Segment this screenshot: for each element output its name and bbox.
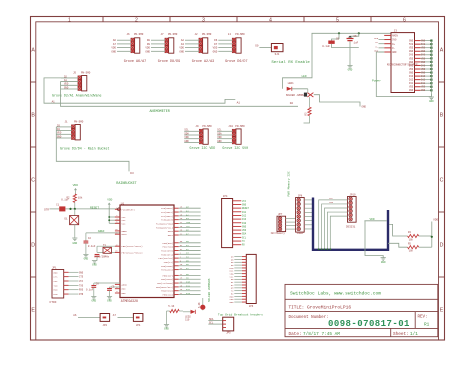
- svg-text:SCL: SCL: [186, 225, 191, 228]
- svg-text:GND: GND: [421, 61, 426, 64]
- svg-text:RXD: RXD: [79, 289, 84, 292]
- svg-text:SCL: SCL: [217, 129, 222, 132]
- svg-text:Grove I2C VDD: Grove I2C VDD: [190, 146, 216, 150]
- svg-text:5V0: 5V0: [421, 54, 426, 57]
- svg-text:PN-SMD: PN-SMD: [202, 125, 212, 128]
- op-amp U1 ATMEGA328: [115, 202, 201, 303]
- junction reset/R2: [74, 208, 76, 210]
- svg-text:PB7(XTAL2/TOSC2): PB7(XTAL2/TOSC2): [122, 251, 143, 254]
- connector J4 Grove D6/D7: [213, 33, 248, 64]
- svg-text:D: D: [31, 243, 35, 249]
- svg-text:5V0: 5V0: [374, 37, 379, 40]
- svg-text:RXD: RXD: [54, 289, 59, 292]
- svg-text:VDD: VDD: [409, 57, 414, 60]
- svg-text:VDD: VDD: [64, 83, 69, 86]
- svg-text:TXD: TXD: [54, 284, 59, 287]
- svg-text:PD3(INT1): PD3(INT1): [161, 253, 173, 256]
- svg-text:C10: C10: [185, 319, 190, 322]
- capacitor C8: [86, 283, 120, 303]
- svg-text:SJ1: SJ1: [275, 53, 280, 56]
- svg-text:6: 6: [403, 17, 406, 23]
- svg-text:SDA: SDA: [184, 132, 189, 135]
- wire LED net vertical: [283, 33, 313, 88]
- svg-text:JP1: JP1: [52, 266, 57, 269]
- svg-text:C1: C1: [56, 203, 60, 206]
- connector J2 Grove A2/A3: [179, 33, 214, 64]
- svg-text:VDD: VDD: [421, 68, 426, 71]
- svg-text:DTR: DTR: [79, 293, 84, 296]
- svg-text:A1: A1: [237, 102, 241, 105]
- svg-text:A3: A3: [181, 43, 185, 46]
- svg-text:PD6(AIN0): PD6(AIN0): [161, 265, 173, 268]
- svg-text:PN-SMD: PN-SMD: [168, 33, 178, 36]
- svg-text:PC5(ADC5/SCL): PC5(ADC5/SCL): [156, 226, 173, 229]
- resistor R6 5.1K: [167, 305, 184, 325]
- wire R5 to VDD column: [419, 246, 432, 248]
- node VDD (R2): [73, 184, 79, 192]
- svg-text:A7: A7: [113, 314, 117, 317]
- svg-text:10k: 10k: [78, 197, 83, 200]
- svg-text:GND: GND: [429, 100, 434, 103]
- svg-text:Power: Power: [372, 80, 381, 83]
- svg-text:SOLDER JUMPERS: SOLDER JUMPERS: [208, 278, 211, 302]
- svg-text:D-: D-: [392, 47, 395, 50]
- svg-text:D13: D13: [409, 75, 414, 78]
- svg-text:MAIN: MAIN: [392, 35, 398, 38]
- svg-text:D11: D11: [186, 284, 191, 287]
- svg-text:A6: A6: [73, 314, 77, 317]
- svg-text:GND: GND: [409, 50, 414, 53]
- svg-text:PB2(SS/OC1B): PB2(SS/OC1B): [157, 282, 173, 285]
- svg-text:GND: GND: [381, 261, 386, 264]
- svg-text:0.1uF: 0.1uF: [61, 198, 69, 201]
- svg-text:5V0: 5V0: [409, 54, 414, 57]
- svg-text:SwitchDoc Labs, www.switchdoc.: SwitchDoc Labs, www.switchdoc.com: [290, 291, 381, 297]
- svg-text:B: B: [440, 113, 444, 119]
- connector J7 Grove D8/D9: [145, 33, 180, 64]
- junction on rail: [358, 32, 360, 34]
- svg-text:DS3231: DS3231: [346, 226, 356, 229]
- svg-text:A: A: [31, 48, 35, 54]
- svg-text:A7: A7: [113, 43, 117, 46]
- svg-text:GND: GND: [122, 288, 127, 291]
- svg-text:2: 2: [135, 17, 138, 23]
- svg-text:GND: GND: [72, 242, 77, 245]
- svg-text:0098-070817-01: 0098-070817-01: [328, 319, 410, 329]
- svg-text:PD4(XCK/T0): PD4(XCK/T0): [159, 257, 173, 260]
- wire D2 anemometer net: [61, 82, 299, 107]
- svg-text:REV:: REV:: [418, 316, 428, 320]
- svg-text:ADC6: ADC6: [168, 230, 174, 233]
- svg-text:J1: J1: [65, 121, 69, 124]
- svg-text:J10: J10: [228, 125, 233, 128]
- svg-text:JP5: JP5: [226, 332, 231, 335]
- svg-text:E: E: [440, 308, 444, 314]
- connector JP10 DS3231: [318, 193, 356, 250]
- LED D2 cluster: [183, 310, 195, 322]
- svg-text:1uF: 1uF: [354, 42, 359, 45]
- svg-text:PN-SMD: PN-SMD: [81, 72, 91, 75]
- svg-text:AREF: AREF: [98, 230, 105, 233]
- svg-text:PN-SMD: PN-SMD: [235, 33, 245, 36]
- svg-text:PWR Memory I2C: PWR Memory I2C: [287, 171, 290, 196]
- wire power gnd path: [376, 52, 431, 97]
- svg-text:Y1: Y1: [103, 244, 107, 247]
- svg-text:GND: GND: [217, 140, 222, 143]
- junction pullup: [431, 236, 433, 238]
- svg-text:Serial RX Enable: Serial RX Enable: [271, 60, 310, 65]
- svg-text:J6: J6: [127, 33, 131, 36]
- svg-text:D10: D10: [242, 222, 247, 225]
- svg-text:VDD: VDD: [409, 68, 414, 71]
- svg-text:PC4(ADC4/SDA): PC4(ADC4/SDA): [156, 223, 173, 226]
- svg-text:VDD: VDD: [111, 47, 116, 50]
- svg-text:GND: GND: [179, 50, 184, 53]
- svg-text:JP4: JP4: [136, 324, 141, 327]
- svg-text:GND: GND: [421, 89, 426, 92]
- svg-text:ATMEGA328: ATMEGA328: [121, 299, 138, 303]
- junction vcc1: [108, 216, 110, 218]
- svg-text:VDD: VDD: [107, 198, 112, 201]
- svg-text:VCC: VCC: [122, 222, 127, 225]
- svg-text:ANEMOMETER: ANEMOMETER: [150, 110, 170, 114]
- wire A1 net: [44, 78, 235, 103]
- svg-text:PC6(RESET): PC6(RESET): [122, 208, 135, 211]
- svg-text:D1: D1: [64, 218, 68, 221]
- capacitor C6: [322, 33, 359, 48]
- svg-text:FTDI: FTDI: [50, 301, 57, 304]
- svg-text:GND: GND: [164, 328, 169, 331]
- svg-text:PD0(RXD): PD0(RXD): [162, 242, 173, 245]
- svg-text:GND: GND: [57, 135, 62, 138]
- svg-text:VDD: VDD: [421, 47, 426, 50]
- svg-text:D: D: [440, 243, 444, 249]
- svg-text:5V0: 5V0: [421, 64, 426, 67]
- connector J6 Grove A6/A7: [111, 33, 146, 64]
- svg-text:Sheet:: Sheet:: [393, 332, 409, 337]
- svg-text:Grove I2C 5V0: Grove I2C 5V0: [222, 146, 248, 150]
- svg-text:Date:: Date:: [289, 332, 302, 337]
- svg-text:GND: GND: [84, 257, 89, 260]
- svg-text:A1: A1: [52, 100, 56, 103]
- svg-text:PD1(TXD): PD1(TXD): [162, 246, 173, 249]
- svg-text:D12: D12: [186, 288, 191, 291]
- ground memory: [381, 258, 386, 264]
- svg-text:VDD: VDD: [184, 136, 189, 139]
- jumper JP3b: [113, 314, 143, 327]
- svg-text:Document Number:: Document Number:: [289, 315, 329, 320]
- svg-text:GND: GND: [145, 50, 150, 53]
- svg-text:D8: D8: [147, 39, 151, 42]
- svg-text:GND: GND: [409, 89, 414, 92]
- svg-text:J2: J2: [195, 33, 199, 36]
- svg-text:RESET: RESET: [242, 207, 250, 210]
- svg-text:GND: GND: [111, 50, 116, 53]
- svg-text:D-: D-: [376, 45, 379, 48]
- svg-text:SDA: SDA: [186, 221, 191, 224]
- connector J3 power header: [374, 30, 432, 93]
- junction on rail: [338, 32, 340, 34]
- wire SJ right net: [314, 95, 360, 107]
- svg-text:0.1uF: 0.1uF: [88, 245, 96, 248]
- svg-text:PC3(ADC3): PC3(ADC3): [161, 219, 173, 222]
- svg-text:B: B: [31, 113, 35, 119]
- svg-text:VDD: VDD: [421, 57, 426, 60]
- svg-text:PB5(SCK): PB5(SCK): [162, 294, 173, 297]
- connector J1 Grove D3/D4 Rain Bucket: [56, 121, 109, 151]
- svg-text:GND: GND: [79, 271, 84, 274]
- svg-text:PC2(ADC2): PC2(ADC2): [161, 215, 173, 218]
- svg-text:A6: A6: [113, 39, 117, 42]
- svg-text:0.1uF: 0.1uF: [322, 45, 330, 48]
- svg-text:3: 3: [202, 17, 205, 23]
- svg-text:VDD: VDD: [213, 47, 218, 50]
- svg-text:D11: D11: [409, 82, 414, 85]
- svg-text:RAINBUCKET: RAINBUCKET: [116, 182, 136, 186]
- LED LED1: [287, 82, 308, 91]
- solder jumper SJ1 Serial RX Enable: [255, 44, 310, 66]
- svg-text:0.1uF: 0.1uF: [86, 289, 94, 292]
- connector JP8: [296, 195, 312, 236]
- svg-text:D13: D13: [186, 292, 191, 295]
- svg-text:SCL: SCL: [209, 321, 214, 324]
- svg-text:VCC: VCC: [242, 200, 247, 203]
- svg-text:VDD: VDD: [242, 229, 247, 232]
- svg-text:GND: GND: [242, 225, 247, 228]
- svg-text:D10: D10: [186, 280, 191, 283]
- svg-text:I2C/Memory: I2C/Memory: [271, 232, 286, 235]
- junction vcc2: [108, 219, 110, 221]
- resistor R4: [408, 231, 419, 241]
- ground power: [429, 97, 434, 103]
- solder jumper SJ2: [286, 89, 314, 97]
- svg-text:C2: C2: [88, 237, 92, 240]
- svg-text:Grove D2/A1 Anem/WindVane: Grove D2/A1 Anem/WindVane: [52, 94, 101, 98]
- connector JP7: [271, 213, 296, 235]
- title block: [285, 284, 438, 336]
- svg-text:C5: C5: [354, 35, 358, 38]
- svg-text:SCL: SCL: [184, 129, 189, 132]
- svg-text:J3: J3: [394, 30, 398, 33]
- connector JP1 FTDI: [50, 266, 84, 304]
- svg-text:A2: A2: [181, 39, 185, 42]
- svg-text:CTS: CTS: [54, 276, 59, 279]
- wire D3 rainbucket net: [56, 127, 129, 171]
- svg-text:5: 5: [336, 17, 339, 23]
- bus I2C/memory: [313, 198, 388, 250]
- svg-text:PB6(XTAL1/TOSC1): PB6(XTAL1/TOSC1): [122, 245, 143, 248]
- svg-text:D2: D2: [290, 102, 294, 105]
- svg-text:D11: D11: [421, 82, 426, 85]
- svg-text:RESET: RESET: [90, 206, 99, 209]
- svg-text:PN-SMD: PN-SMD: [202, 33, 212, 36]
- svg-text:GND: GND: [348, 69, 353, 72]
- svg-text:C: C: [31, 178, 35, 184]
- svg-text:PC1(ADC1): PC1(ADC1): [161, 211, 173, 214]
- svg-text:7/8/17 7:45 AM: 7/8/17 7:45 AM: [303, 332, 340, 337]
- wire VDD pullup column: [431, 222, 433, 248]
- LED D3 vertical + resistor: [198, 298, 206, 310]
- wire AREF: [86, 232, 120, 234]
- svg-text:JP6: JP6: [249, 305, 254, 308]
- svg-text:Grove D6/D7: Grove D6/D7: [225, 59, 247, 64]
- connector JP4: [222, 195, 250, 248]
- resistor R5: [408, 242, 419, 252]
- svg-text:R1: R1: [424, 323, 430, 328]
- svg-text:JP2: JP2: [103, 324, 108, 327]
- svg-text:Power: Power: [297, 232, 305, 235]
- svg-text:GND: GND: [409, 40, 414, 43]
- svg-text:D13: D13: [421, 75, 426, 78]
- resistor R2 10k: [66, 192, 82, 209]
- connector J5 Grove D2/A1 Anem/WindVane: [52, 72, 101, 98]
- junction reset/D1: [69, 208, 71, 210]
- svg-text:Grove D8/D9: Grove D8/D9: [158, 59, 180, 64]
- svg-text:GND: GND: [184, 140, 189, 143]
- crystal Y1: [94, 244, 120, 261]
- jumper JP2: [73, 314, 109, 327]
- svg-text:C6: C6: [336, 38, 340, 41]
- svg-text:PB3(MOSI/OC2): PB3(MOSI/OC2): [156, 286, 173, 289]
- svg-text:PB0(ICP): PB0(ICP): [162, 274, 173, 277]
- svg-text:GND: GND: [92, 264, 97, 267]
- svg-text:ADC7: ADC7: [168, 234, 174, 237]
- diode D1: [64, 209, 78, 238]
- svg-text:GND: GND: [421, 71, 426, 74]
- svg-text:1: 1: [68, 17, 71, 23]
- svg-text:Grove A2/A3: Grove A2/A3: [192, 59, 214, 64]
- svg-text:GND: GND: [91, 300, 96, 303]
- svg-text:CTS: CTS: [79, 276, 84, 279]
- svg-text:VDD: VDD: [433, 219, 438, 222]
- svg-text:JP4: JP4: [223, 195, 228, 198]
- svg-text:Top Grid Breakout headers: Top Grid Breakout headers: [218, 312, 263, 316]
- svg-text:J9: J9: [195, 125, 199, 128]
- wire VDD memory: [364, 218, 386, 258]
- svg-text:5V0: 5V0: [421, 43, 426, 46]
- svg-text:AGND: AGND: [122, 283, 128, 286]
- svg-text:D0: D0: [255, 45, 259, 48]
- capacitor C9: [107, 286, 120, 303]
- wire VCC column: [108, 206, 110, 223]
- svg-text:D7: D7: [214, 43, 218, 46]
- capacitor C5 polarized: [347, 33, 359, 65]
- svg-text:JP10: JP10: [350, 193, 357, 196]
- svg-text:GND: GND: [421, 40, 426, 43]
- svg-text:GND: GND: [392, 51, 397, 54]
- svg-text:GND: GND: [242, 203, 247, 206]
- wire gnd column: [430, 41, 432, 97]
- svg-text:MICROCONNECTOR*SQUARED*: MICROCONNECTOR*SQUARED*: [387, 64, 419, 67]
- svg-text:A: A: [440, 48, 444, 54]
- svg-text:D12: D12: [421, 79, 426, 82]
- svg-text:D12: D12: [409, 79, 414, 82]
- svg-text:J7: J7: [161, 33, 165, 36]
- svg-text:D9: D9: [147, 43, 151, 46]
- wire bus to R5: [388, 243, 408, 247]
- svg-text:D13: D13: [242, 218, 247, 221]
- svg-text:GND: GND: [421, 50, 426, 53]
- svg-text:1/1: 1/1: [410, 332, 418, 337]
- connector J9 Grove I2C VDD: [184, 125, 215, 150]
- svg-text:VCC: VCC: [54, 280, 59, 283]
- ground C2: [83, 254, 88, 260]
- svg-text:PD7(AIN1): PD7(AIN1): [161, 269, 173, 272]
- svg-text:PD2(INT0): PD2(INT0): [161, 249, 173, 252]
- svg-text:10k: 10k: [409, 238, 414, 241]
- svg-text:5.1K: 5.1K: [198, 302, 201, 308]
- capacitor C2: [84, 233, 96, 255]
- svg-text:PN-SMD: PN-SMD: [74, 121, 84, 124]
- svg-text:LED1: LED1: [288, 82, 295, 85]
- svg-text:E: E: [31, 308, 35, 314]
- wire R4 to VDD column: [419, 235, 432, 237]
- connector J10 Grove I2C 5V0: [217, 125, 248, 150]
- svg-text:VDD: VDD: [145, 47, 150, 50]
- svg-text:LED: LED: [302, 75, 307, 78]
- svg-text:VDD: VDD: [409, 47, 414, 50]
- wire bus to R4: [389, 224, 408, 236]
- ground below C5: [347, 66, 352, 72]
- wire RESET net: [50, 208, 60, 210]
- svg-text:PB1(OC1A): PB1(OC1A): [161, 278, 173, 281]
- svg-text:VDD: VDD: [409, 86, 414, 89]
- svg-text:SDA: SDA: [217, 132, 222, 135]
- svg-text:GND: GND: [64, 86, 69, 89]
- svg-text:PN-SMD: PN-SMD: [134, 33, 144, 36]
- connector JP6 breakout: [230, 254, 257, 307]
- svg-text:SDA: SDA: [329, 201, 334, 204]
- resistor R3: [304, 97, 312, 123]
- svg-text:AVCC: AVCC: [122, 233, 128, 236]
- svg-text:GND: GND: [409, 71, 414, 74]
- svg-text:VDD: VDD: [179, 47, 184, 50]
- svg-text:TITLE:: TITLE:: [289, 305, 305, 310]
- node VDD (IC): [107, 198, 112, 206]
- svg-text:TXD: TXD: [79, 284, 84, 287]
- svg-text:GND: GND: [122, 292, 127, 295]
- svg-text:Grove D3/D4 - Rain Bucket: Grove D3/D4 - Rain Bucket: [60, 146, 109, 150]
- svg-text:J5: J5: [73, 72, 77, 75]
- connector JP5 SDA/SCL: [208, 317, 233, 334]
- svg-text:PB4(MISO): PB4(MISO): [161, 290, 173, 293]
- svg-text:VDD: VDD: [421, 86, 426, 89]
- svg-text:GND: GND: [213, 50, 218, 53]
- svg-text:D12: D12: [242, 214, 247, 217]
- svg-text:VCC: VCC: [79, 280, 84, 283]
- svg-text:D6: D6: [214, 39, 218, 42]
- svg-text:Grove A6/A7: Grove A6/A7: [124, 59, 146, 64]
- svg-text:GND: GND: [54, 271, 59, 274]
- svg-text:SDA: SDA: [242, 233, 247, 236]
- capacitor C1 series: [56, 198, 69, 211]
- svg-text:PD5(T1): PD5(T1): [164, 261, 173, 264]
- svg-text:DTR: DTR: [54, 293, 59, 296]
- svg-text:SCL: SCL: [329, 197, 334, 200]
- svg-text:GND: GND: [230, 301, 235, 304]
- svg-text:VDD: VDD: [217, 136, 222, 139]
- svg-text:5V0: 5V0: [392, 39, 397, 42]
- svg-text:C: C: [440, 178, 444, 184]
- svg-text:J4: J4: [228, 33, 232, 36]
- svg-text:VDD: VDD: [57, 132, 62, 135]
- svg-text:JP7: JP7: [278, 213, 283, 216]
- svg-text:PC0(ADC0): PC0(ADC0): [161, 207, 173, 210]
- svg-text:VDD: VDD: [73, 184, 79, 187]
- svg-text:SOLDER JUMPER: SOLDER JUMPER: [286, 94, 306, 97]
- ground D1: [72, 238, 77, 245]
- capacitor C3 xtal: [95, 254, 100, 256]
